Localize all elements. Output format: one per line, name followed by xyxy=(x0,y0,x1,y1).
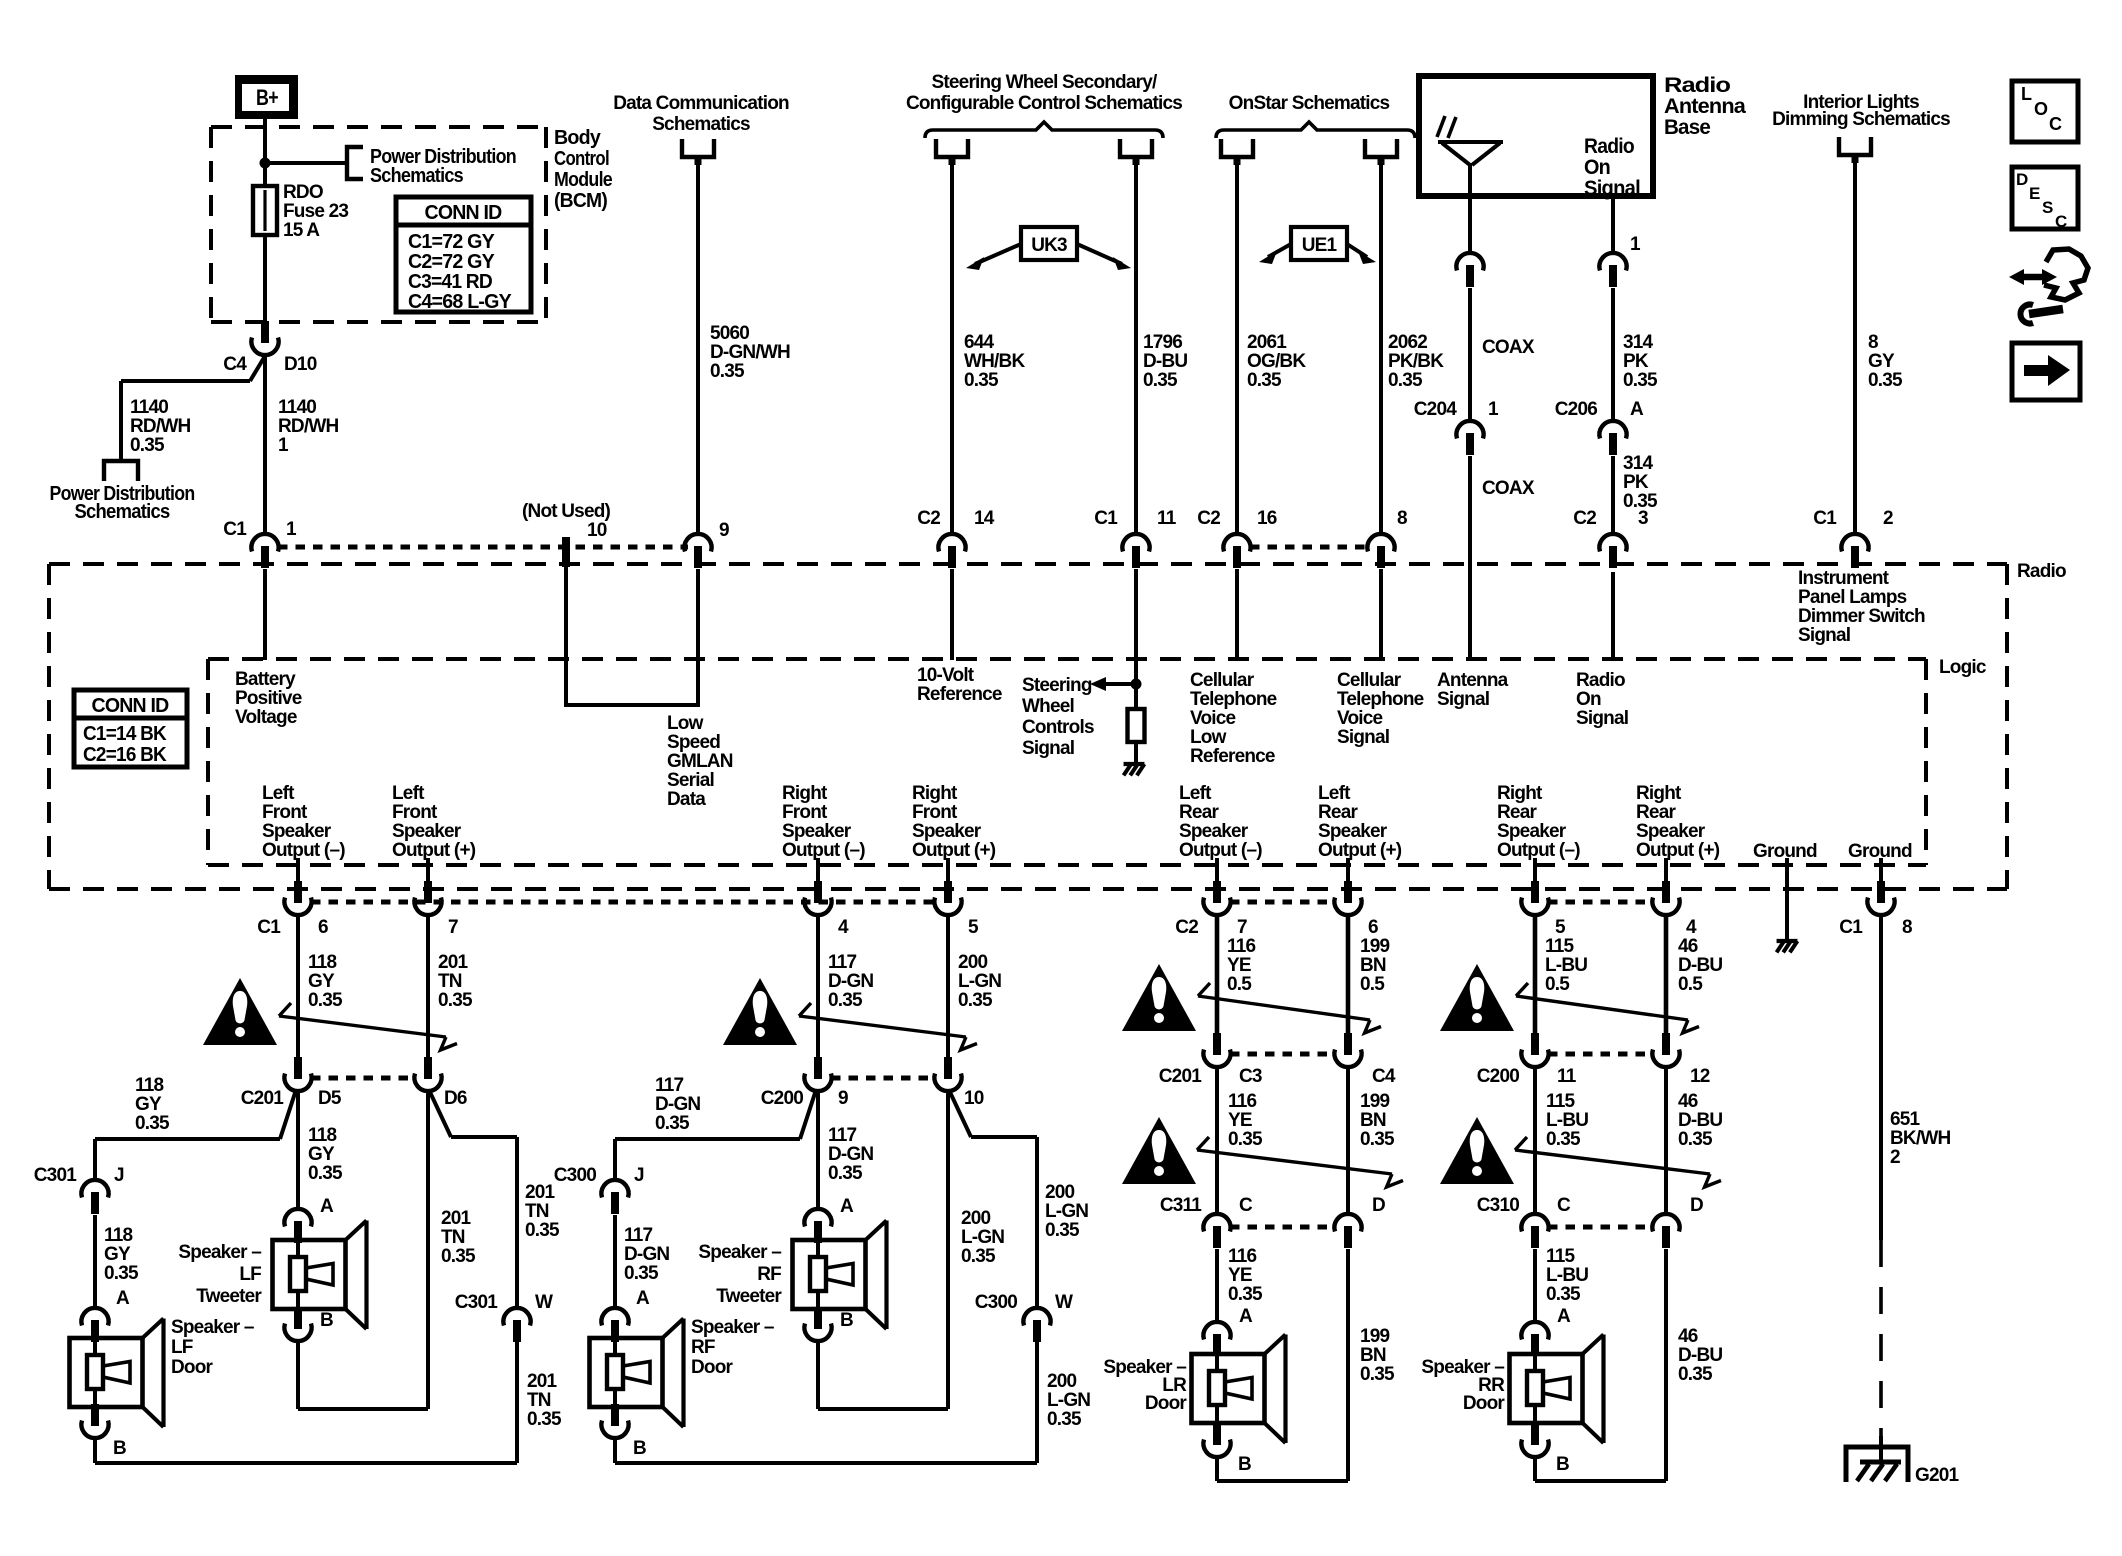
svg-text:Telephone: Telephone xyxy=(1337,689,1424,710)
icon hand tool xyxy=(2009,249,2088,324)
svg-text:Controls: Controls xyxy=(1022,717,1094,738)
speaker RR Door xyxy=(1510,1335,1604,1444)
label C200 pin right xyxy=(964,1088,984,1109)
connector C311 C xyxy=(1203,1214,1230,1248)
svg-text:BN: BN xyxy=(1360,1110,1386,1131)
label C201 pin left xyxy=(318,1088,342,1109)
svg-text:Dimming Schematics: Dimming Schematics xyxy=(1772,109,1950,130)
connector radio bottom x818 xyxy=(804,881,831,915)
svg-text:115: 115 xyxy=(1545,936,1574,957)
label C201 rear xyxy=(1159,1066,1202,1087)
label Ground 1 xyxy=(1753,841,1817,862)
wire LR neg upper xyxy=(1215,915,1220,1035)
svg-text:D: D xyxy=(1690,1195,1703,1216)
label 2062 PK/BK 0.35 xyxy=(1388,332,1444,391)
connector line bottom front xyxy=(311,900,935,905)
svg-text:Door: Door xyxy=(691,1357,734,1378)
connector C301 pin W xyxy=(503,1308,530,1342)
svg-text:CONN ID: CONN ID xyxy=(425,202,502,224)
svg-text:D10: D10 xyxy=(284,354,317,375)
svg-text:Front: Front xyxy=(392,802,438,823)
svg-text:0.35: 0.35 xyxy=(710,361,745,382)
svg-text:Signal: Signal xyxy=(1022,738,1074,759)
label pin W xyxy=(535,1292,553,1313)
off-page cup steering right xyxy=(1120,139,1152,165)
connector C310 D xyxy=(1652,1214,1679,1248)
label C200 pin left xyxy=(1557,1066,1577,1087)
connector line C311 xyxy=(1230,1225,1335,1230)
svg-text:0.35: 0.35 xyxy=(525,1220,560,1241)
svg-text:4: 4 xyxy=(838,917,849,938)
svg-text:Data: Data xyxy=(667,789,706,810)
wire 2061 to C2/16 xyxy=(1235,165,1239,534)
svg-text:C204: C204 xyxy=(1414,399,1457,420)
svg-text:RF: RF xyxy=(757,1264,781,1285)
label 116|YE|0.5 xyxy=(1227,936,1255,995)
connector tweeter A RF Tweeter xyxy=(804,1209,831,1243)
label G201 xyxy=(1915,1465,1960,1486)
label Body Control Module (BCM) xyxy=(554,127,613,212)
wire ground C1/8 dashed xyxy=(1879,1240,1883,1436)
svg-text:C301: C301 xyxy=(34,1165,77,1186)
connector line radio top left xyxy=(278,545,688,550)
label 115|L-BU|0.5 xyxy=(1545,936,1587,995)
label C301 (J) xyxy=(34,1165,77,1186)
connector radio bottom x1217 xyxy=(1203,881,1230,915)
svg-text:5: 5 xyxy=(1555,917,1566,938)
connector C201 left xyxy=(1203,1033,1230,1067)
svg-text:Signal: Signal xyxy=(1798,625,1850,646)
connector line radio top onstar xyxy=(1250,545,1370,550)
off-page bracket Power Distribution xyxy=(347,147,363,179)
label 46|D-BU|0.5 xyxy=(1678,936,1722,995)
svg-text:L-GN: L-GN xyxy=(1047,1390,1090,1411)
label pin 10 xyxy=(587,520,607,541)
svg-text:Front: Front xyxy=(912,802,958,823)
svg-text:0.35: 0.35 xyxy=(828,1163,863,1184)
label C1 (8) xyxy=(1839,917,1863,938)
svg-text:YE: YE xyxy=(1227,955,1251,976)
label pin 4 xyxy=(838,917,849,938)
label C300 (J) xyxy=(554,1165,596,1186)
svg-text:Right: Right xyxy=(912,783,958,804)
label C2 (16) xyxy=(1197,508,1220,529)
warning triangle LF Tweeter xyxy=(203,978,277,1045)
connector C201 right xyxy=(1334,1033,1361,1067)
wire tweeter B loop RF Tweeter xyxy=(818,1091,948,1409)
label pin 2 xyxy=(1883,508,1893,529)
label 117|D-GN|0.35 upper xyxy=(828,952,873,1011)
svg-text:0.35: 0.35 xyxy=(527,1409,562,1430)
svg-text:11: 11 xyxy=(1157,508,1177,529)
svg-text:GY: GY xyxy=(1868,351,1895,372)
label Speaker RR xyxy=(1421,1357,1505,1414)
svg-text:B: B xyxy=(1238,1454,1251,1475)
svg-text:C1: C1 xyxy=(1813,508,1837,529)
label D10 xyxy=(284,354,317,375)
svg-text:UE1: UE1 xyxy=(1302,235,1338,256)
label Speaker LF Tweeter xyxy=(178,1242,262,1307)
wire 314 to C2/3 xyxy=(1611,456,1615,534)
svg-text:BN: BN xyxy=(1360,1345,1386,1366)
svg-text:Speaker –: Speaker – xyxy=(691,1317,774,1338)
connector C1 pin 2 xyxy=(1841,534,1868,568)
label C311 xyxy=(1160,1195,1202,1216)
svg-text:116: 116 xyxy=(1228,1246,1256,1267)
label C1 (radio c1/1) xyxy=(223,519,247,540)
svg-text:Output (–): Output (–) xyxy=(1497,840,1580,861)
svg-text:117: 117 xyxy=(624,1225,652,1246)
label 200|L-GN|0.35 upper xyxy=(958,952,1001,1011)
connector tweeter B RF Tweeter xyxy=(804,1307,831,1341)
svg-text:0.5: 0.5 xyxy=(1227,974,1252,995)
svg-text:TN: TN xyxy=(525,1201,549,1222)
svg-text:Door: Door xyxy=(1463,1393,1506,1414)
label 199|BN|0.35 mid xyxy=(1360,1091,1395,1150)
icon box arrow xyxy=(2012,343,2080,400)
svg-text:Front: Front xyxy=(262,802,308,823)
label C201 xyxy=(241,1088,284,1109)
wire junction to off-page bracket xyxy=(265,161,345,165)
connector C200 left xyxy=(1521,1033,1548,1067)
svg-text:46: 46 xyxy=(1678,936,1698,957)
wire cellular signal into logic xyxy=(1379,569,1383,660)
title Interior Lights Dimming Schematics xyxy=(1772,92,1950,130)
svg-text:Speaker: Speaker xyxy=(1497,821,1567,842)
svg-text:A: A xyxy=(1557,1306,1571,1327)
label Right Rear speaker output Output (+) xyxy=(1636,783,1720,861)
connector door B LF xyxy=(81,1404,108,1438)
connector radio bottom x1348 xyxy=(1334,881,1361,915)
label 115|L-BU|0.35 mid xyxy=(1546,1091,1588,1150)
svg-text:J: J xyxy=(114,1165,124,1186)
label C1 (2) xyxy=(1813,508,1837,529)
label C1 (11) xyxy=(1094,508,1118,529)
label 5060 D-GN/WH 0.35 xyxy=(710,323,790,382)
svg-text:C3=41 RD: C3=41 RD xyxy=(408,271,492,293)
label 1796 D-BU 0.35 xyxy=(1143,332,1187,391)
box Logic dashed xyxy=(208,659,1926,865)
node steering junction xyxy=(1131,679,1142,690)
svg-text:TN: TN xyxy=(527,1390,551,1411)
connector C201 right xyxy=(414,1057,441,1091)
wire pin10 into radio xyxy=(564,567,568,705)
wire RR neg lower xyxy=(1533,1249,1537,1322)
svg-text:0.35: 0.35 xyxy=(1678,1364,1713,1385)
svg-text:0.35: 0.35 xyxy=(308,990,343,1011)
speaker RF Tweeter xyxy=(793,1221,887,1330)
svg-text:C2: C2 xyxy=(1197,508,1220,529)
svg-text:Output (+): Output (+) xyxy=(1636,840,1720,861)
svg-text:C300: C300 xyxy=(554,1165,596,1186)
svg-text:4: 4 xyxy=(1686,917,1697,938)
svg-text:D-BU: D-BU xyxy=(1143,351,1187,372)
label C310 xyxy=(1477,1195,1519,1216)
wire 117|D-GN|0.35 upper xyxy=(816,915,820,1059)
label 10-Volt Reference xyxy=(917,665,1002,705)
svg-text:C2: C2 xyxy=(917,508,940,529)
wire radio on into logic xyxy=(1611,572,1615,660)
box Radio Antenna Base xyxy=(1419,76,1653,196)
label 117|D-GN|0.35 tweeter xyxy=(828,1125,873,1184)
twisted pair arrow LR upper xyxy=(1198,983,1381,1033)
svg-text:LF: LF xyxy=(239,1264,261,1285)
svg-text:0.35: 0.35 xyxy=(1678,1129,1713,1150)
label tweeter A pin xyxy=(840,1196,854,1217)
svg-text:A: A xyxy=(636,1288,650,1309)
wire Right Front speaker output Output (+) xyxy=(946,858,950,882)
label pin 8 ground xyxy=(1902,917,1912,938)
svg-text:1: 1 xyxy=(278,435,289,456)
wire 644 to C2/14 xyxy=(950,165,954,534)
warning triangle RF Tweeter xyxy=(723,978,797,1045)
svg-text:5060: 5060 xyxy=(710,323,749,344)
svg-text:Schematics: Schematics xyxy=(652,114,750,135)
wire Left Front speaker output Output (+) xyxy=(426,858,430,882)
option box UE1 xyxy=(1291,227,1347,260)
svg-text:0.35: 0.35 xyxy=(964,370,999,391)
label C310 pin C xyxy=(1557,1195,1571,1216)
svg-text:Radio: Radio xyxy=(1576,670,1625,691)
label 201|TN|0.35 upper xyxy=(438,952,473,1011)
svg-text:C200: C200 xyxy=(761,1088,803,1109)
wire 314 to C206 xyxy=(1611,288,1615,421)
svg-text:C301: C301 xyxy=(455,1292,498,1313)
wire 10-volt into logic xyxy=(950,569,954,660)
connector line bottom LR xyxy=(1230,900,1335,905)
svg-text:On: On xyxy=(1576,689,1601,710)
label C2 (14) xyxy=(917,508,940,529)
svg-text:Data Communication: Data Communication xyxy=(613,93,789,114)
svg-text:Speaker: Speaker xyxy=(262,821,332,842)
label C201 pin left xyxy=(1239,1066,1262,1087)
label 116|YE|0.35 mid xyxy=(1228,1091,1263,1150)
label 115|L-BU|0.35 lower xyxy=(1546,1246,1588,1305)
label 117|D-GN|0.35 at door xyxy=(624,1225,669,1284)
svg-text:D-GN/WH: D-GN/WH xyxy=(710,342,790,363)
svg-text:Signal: Signal xyxy=(1437,689,1489,710)
connector C204 pin 1 xyxy=(1456,421,1483,455)
connector C200 left xyxy=(804,1057,831,1091)
svg-text:D-GN: D-GN xyxy=(655,1094,700,1115)
label Antenna Signal xyxy=(1437,670,1509,710)
label C311 pin C xyxy=(1239,1195,1253,1216)
arrow UK3 left xyxy=(966,244,1021,270)
brace steering xyxy=(925,122,1163,138)
svg-text:Front: Front xyxy=(782,802,828,823)
svg-text:Steering: Steering xyxy=(1022,675,1092,696)
svg-text:Reference: Reference xyxy=(1190,746,1275,767)
svg-text:14: 14 xyxy=(974,508,995,529)
off-page cup interior lights xyxy=(1839,137,1871,163)
label pin 6 xyxy=(318,917,328,938)
fuse RDO Fuse 23 15A xyxy=(253,186,277,235)
svg-text:8: 8 xyxy=(1397,508,1407,529)
ground steering resistor xyxy=(1124,764,1145,775)
wire 117|D-GN|0.35 to tweeter A xyxy=(816,1091,820,1209)
wire antenna coax upper xyxy=(1468,196,1472,253)
svg-text:BN: BN xyxy=(1360,955,1386,976)
svg-text:C2: C2 xyxy=(1175,917,1198,938)
svg-text:C4=68 L-GY: C4=68 L-GY xyxy=(408,291,512,313)
label RR A pin xyxy=(1557,1306,1571,1327)
wire J to door A xyxy=(93,1215,97,1308)
arrow steering signal xyxy=(1090,677,1106,691)
brace onstar xyxy=(1216,122,1415,138)
label 199|BN|0.5 xyxy=(1360,936,1390,995)
svg-text:UK3: UK3 xyxy=(1031,235,1067,256)
svg-text:Speed: Speed xyxy=(667,732,720,753)
svg-text:W: W xyxy=(1055,1292,1073,1313)
svg-text:Output (–): Output (–) xyxy=(1179,840,1262,861)
svg-text:GY: GY xyxy=(104,1244,131,1265)
svg-text:1: 1 xyxy=(286,519,297,540)
svg-text:GY: GY xyxy=(308,1144,335,1165)
label Radio Antenna Base xyxy=(1664,74,1746,139)
svg-text:1796: 1796 xyxy=(1143,332,1182,353)
svg-text:Radio: Radio xyxy=(2017,561,2066,582)
label C200 pin left xyxy=(838,1088,848,1109)
svg-text:C206: C206 xyxy=(1555,399,1597,420)
svg-text:2: 2 xyxy=(1883,508,1893,529)
svg-text:201: 201 xyxy=(527,1371,558,1392)
wire Left Rear speaker output Output (–) xyxy=(1215,858,1219,882)
svg-text:16: 16 xyxy=(1257,508,1277,529)
svg-text:Speaker: Speaker xyxy=(1179,821,1249,842)
label Right Front speaker output Output (+) xyxy=(912,783,996,861)
svg-text:0.35: 0.35 xyxy=(104,1263,139,1284)
wire ground 2 stub xyxy=(1879,858,1883,882)
antenna symbol xyxy=(1437,116,1503,196)
label door B pin LF xyxy=(113,1438,126,1459)
connector door A LF xyxy=(81,1308,108,1342)
svg-text:Radio: Radio xyxy=(1664,74,1730,97)
label 199|BN|0.35 lower xyxy=(1360,1326,1395,1385)
label 116|YE|0.35 lower xyxy=(1228,1246,1263,1305)
label Speaker RF Tweeter xyxy=(698,1242,782,1307)
svg-text:C: C xyxy=(2049,114,2062,134)
svg-text:L-BU: L-BU xyxy=(1546,1110,1588,1131)
wire 8 GY to C1/2 xyxy=(1853,163,1857,534)
label COAX upper xyxy=(1482,337,1535,358)
svg-text:C4: C4 xyxy=(1372,1066,1396,1087)
wire 118|GY|0.35 branch to C301/J xyxy=(95,1090,296,1182)
svg-text:9: 9 xyxy=(838,1088,848,1109)
svg-text:Right: Right xyxy=(1497,783,1543,804)
svg-text:RF: RF xyxy=(691,1337,715,1358)
label 200|L-GN|0.35 below W xyxy=(1047,1371,1090,1430)
label 46|D-BU|0.35 lower xyxy=(1678,1326,1722,1385)
svg-text:Instrument: Instrument xyxy=(1798,568,1890,589)
label pin 5 xyxy=(968,917,979,938)
label pin J xyxy=(114,1165,124,1186)
label 118|GY|0.35 branch xyxy=(135,1075,170,1134)
svg-text:O: O xyxy=(2034,99,2048,119)
wire RR neg upper xyxy=(1533,915,1538,1035)
connector line C310 xyxy=(1548,1225,1653,1230)
svg-text:200: 200 xyxy=(961,1208,991,1229)
svg-text:C1=14 BK: C1=14 BK xyxy=(83,723,167,745)
off-page bracket power distribution schematics xyxy=(104,461,138,481)
wire data comm to pin 9 xyxy=(696,162,700,534)
wire LR neg lower xyxy=(1215,1249,1219,1322)
connector door A RF xyxy=(601,1308,628,1342)
label 2061 OG/BK 0.35 xyxy=(1247,332,1306,391)
svg-text:LF: LF xyxy=(171,1337,193,1358)
wire door B loop LF xyxy=(95,1340,517,1463)
svg-text:8: 8 xyxy=(1902,917,1912,938)
svg-text:118: 118 xyxy=(308,952,336,973)
svg-text:Output (+): Output (+) xyxy=(392,840,476,861)
svg-text:C1=72 GY: C1=72 GY xyxy=(408,231,495,253)
svg-text:GMLAN: GMLAN xyxy=(667,751,733,772)
svg-text:Base: Base xyxy=(1664,116,1710,139)
svg-text:D: D xyxy=(2016,170,2028,189)
svg-text:C: C xyxy=(1557,1195,1571,1216)
svg-text:GY: GY xyxy=(135,1094,162,1115)
label pin W xyxy=(1055,1292,1073,1313)
svg-text:C1: C1 xyxy=(257,917,281,938)
svg-text:0.35: 0.35 xyxy=(130,435,165,456)
label C200 rear xyxy=(1477,1066,1519,1087)
connector C1 pin 1 xyxy=(251,534,278,568)
svg-text:200: 200 xyxy=(958,952,988,973)
svg-text:C1: C1 xyxy=(1094,508,1118,529)
wire Right Rear speaker output Output (+) xyxy=(1664,858,1668,882)
connector radio bottom x948 xyxy=(934,881,961,915)
svg-text:1140: 1140 xyxy=(278,397,316,418)
wire RR pos upper xyxy=(1664,915,1669,1035)
svg-text:WH/BK: WH/BK xyxy=(964,351,1025,372)
svg-text:10-Volt: 10-Volt xyxy=(917,665,975,686)
svg-text:118: 118 xyxy=(308,1125,336,1146)
label Right Front speaker output Output (–) xyxy=(782,783,865,861)
label Left Front speaker output Output (–) xyxy=(262,783,345,861)
svg-text:0.35: 0.35 xyxy=(1546,1129,1581,1150)
label pin 9 xyxy=(719,520,729,541)
wire Left Front speaker output Output (–) xyxy=(296,858,300,882)
wire 2062 to pin 8 xyxy=(1379,165,1383,534)
label C206 pin A xyxy=(1630,399,1644,420)
label pin J xyxy=(634,1165,644,1186)
wire Left Rear speaker output Output (+) xyxy=(1346,858,1350,882)
svg-text:TN: TN xyxy=(441,1227,465,1248)
svg-text:1140: 1140 xyxy=(130,397,168,418)
svg-text:Steering Wheel Secondary/: Steering Wheel Secondary/ xyxy=(932,72,1158,93)
twisted pair arrow RR upper xyxy=(1516,983,1699,1033)
svg-text:A: A xyxy=(840,1196,854,1217)
wire tweeter B loop LF Tweeter xyxy=(298,1091,428,1409)
svg-text:Right: Right xyxy=(782,783,828,804)
svg-text:B: B xyxy=(320,1310,333,1331)
wire cellular low ref into logic xyxy=(1235,569,1239,660)
svg-text:Tweeter: Tweeter xyxy=(196,1286,262,1307)
svg-text:0.5: 0.5 xyxy=(1678,974,1703,995)
wire RR B loop xyxy=(1535,1249,1666,1481)
label pin 11 xyxy=(1157,508,1177,529)
label tweeter B pin RF Tweeter xyxy=(840,1310,853,1331)
connector LR B xyxy=(1203,1423,1230,1457)
connector tweeter A LF Tweeter xyxy=(284,1209,311,1243)
svg-text:(BCM): (BCM) xyxy=(554,190,607,212)
svg-text:46: 46 xyxy=(1678,1091,1698,1112)
svg-text:Body: Body xyxy=(554,127,602,149)
twisted pair arrow LR lower xyxy=(1197,1137,1403,1187)
svg-text:Serial: Serial xyxy=(667,770,714,791)
connector C300 pin J xyxy=(601,1180,628,1214)
label 651 BK/WH 2 xyxy=(1890,1109,1950,1168)
label 201|TN|0.35 tweeter loop xyxy=(441,1208,476,1267)
